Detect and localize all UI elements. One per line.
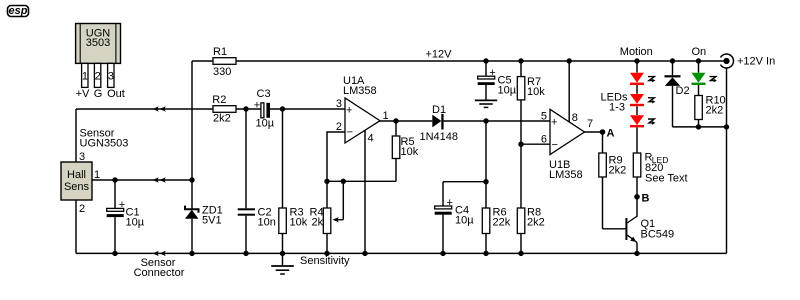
node R6 bottom [483,251,488,256]
diode D2 [665,61,690,127]
node D1 out [483,118,488,123]
node Q1 emitter ground [634,251,639,256]
svg-text:See Text: See Text [645,172,688,184]
svg-text:10µ: 10µ [498,85,517,97]
svg-text:2k2: 2k2 [609,165,627,177]
node ZD1 bottom [189,251,194,256]
svg-text:3: 3 [108,71,114,83]
package pin 2 [94,63,100,87]
node C4R6 [483,179,488,184]
wire to C4 [443,181,486,183]
svg-text:10µ: 10µ [455,215,474,227]
resistor R3 [279,109,308,253]
svg-text:3: 3 [79,151,85,163]
svg-text:1: 1 [383,110,389,122]
node R10 bottom [696,124,701,129]
wire D1 to U1B [444,120,550,122]
svg-text:2: 2 [336,121,342,133]
resistor R5 [392,121,418,181]
potentiometer R4 [310,181,344,253]
svg-text:BC549: BC549 [641,229,675,241]
wire U1B output [584,131,603,133]
svg-text:On: On [691,46,706,58]
package pin labels [76,88,125,100]
svg-text:−: − [347,127,353,139]
op-amp U1A [343,75,380,143]
svg-text:10µ: 10µ [126,217,145,229]
wire pin2 feedback [327,132,345,208]
svg-text:1: 1 [94,169,100,181]
svg-text:10µ: 10µ [256,118,275,130]
svg-text:1: 1 [82,71,88,83]
node feedback left [324,179,329,184]
capacitor C5 [478,61,517,100]
svg-text:C3: C3 [257,88,271,100]
svg-text:A: A [607,128,615,140]
wire sensor out horizontal [76,108,213,110]
package pin 1 [82,63,88,87]
UGN3503 package [76,24,121,64]
node ZD1 top [189,177,194,182]
svg-text:2: 2 [95,71,101,83]
ground symbol below R3 [271,253,294,274]
svg-text:G: G [94,88,103,100]
svg-text:3503: 3503 [86,37,110,49]
svg-text:B: B [642,192,650,204]
wire left vertical +V [191,61,193,209]
capacitor C3 [254,88,275,130]
resistor R2 [212,94,236,124]
svg-text:6: 6 [541,134,547,146]
capacitor C2 [238,109,276,253]
svg-text:2k2: 2k2 [706,105,724,117]
svg-text:5: 5 [541,111,547,123]
node R7R8 pin6 [518,142,523,147]
LED 3 red [630,115,655,127]
wire right vertical [726,68,728,253]
node green LED rail [696,58,701,63]
node wiper [341,179,346,184]
wire feedback horizontal [327,180,396,182]
svg-text:+: + [551,117,557,129]
capacitor C4 [435,182,475,254]
resistor R7 [517,61,545,144]
svg-text:UGN3503: UGN3503 [80,138,129,150]
connector arrows on +V wire [153,177,166,182]
resistor R1 [192,46,236,78]
LED 2 red [630,94,655,106]
LED green On [692,61,717,85]
wire hall pin2 down [75,200,77,253]
ESP logo [8,5,29,17]
node right vertical D2 wire [724,124,729,129]
svg-text:Hall: Hall [67,169,86,181]
svg-text:Connector: Connector [134,267,185,279]
svg-text:+: + [346,105,352,117]
node pin4 ground [362,251,367,256]
resistor RLED [633,152,687,197]
node R8 bottom [518,251,523,256]
node C3-R3 junction [280,106,285,111]
svg-text:4: 4 [368,133,374,145]
svg-text:10n: 10n [258,217,276,229]
svg-text:R1: R1 [213,46,227,58]
svg-text:1-3: 1-3 [609,102,625,114]
wire sensor +V horizontal [92,179,192,181]
capacitor C1 [107,180,145,253]
node A [600,129,606,135]
zener ZD1 [185,205,223,254]
resistor R10 [695,85,726,127]
svg-text:+: + [254,99,260,111]
wire opamp output [379,120,432,122]
wire pin6 [521,143,550,145]
node R7 rail [518,58,523,63]
terminal +12V In [721,54,776,68]
svg-text:22k: 22k [493,217,511,229]
svg-text:1N4148: 1N4148 [420,131,459,143]
label Sensor UGN3503 [80,128,129,150]
node R3 bottom [280,251,285,256]
svg-text:5V1: 5V1 [202,215,222,227]
node C2 bottom [243,251,248,256]
wire node down [485,121,487,182]
label Sensor Connector [134,257,185,279]
svg-text:−: − [552,139,558,151]
node B [634,194,640,200]
LED 1 red [630,73,655,85]
svg-text:LM358: LM358 [549,169,583,181]
wire hall pin3 up [75,109,77,162]
wire R2 to C3 [236,108,261,110]
svg-text:D1: D1 [432,104,446,116]
node pin8 rail [567,58,572,63]
package pin 3 [108,63,114,87]
connector arrows on ground rail [153,251,166,256]
hall sensor box [61,162,92,200]
svg-text:esp: esp [9,5,28,17]
svg-text:2k2: 2k2 [213,112,231,124]
node LED rail [634,58,639,63]
svg-text:+V: +V [76,88,90,100]
svg-text:+12V In: +12V In [737,56,775,68]
svg-text:3: 3 [336,98,342,110]
node output R5 [393,118,398,123]
svg-text:+12V: +12V [426,49,453,61]
node C1 top [112,177,117,182]
label LEDs 1-3 [601,92,628,114]
svg-text:2k: 2k [312,217,324,229]
svg-text:Motion: Motion [620,46,653,58]
svg-text:D2: D2 [676,85,690,97]
svg-text:8: 8 [572,112,578,124]
svg-text:2: 2 [79,203,85,215]
node D2 rail [670,58,675,63]
resistor R8 [517,144,544,253]
wire pin4 ground [364,131,366,254]
svg-text:330: 330 [213,66,231,78]
svg-text:10k: 10k [290,217,308,229]
node R2-C3 junction [243,106,248,111]
connector arrows on out wire [153,106,166,111]
wire base [603,228,626,230]
+12V rail [236,60,727,62]
resistor R6 [482,182,510,254]
resistor R9 [599,132,626,229]
svg-text:Sens: Sens [64,181,90,193]
wire pin8 [568,61,570,122]
diode D1 [420,104,459,143]
svg-text:10k: 10k [527,86,545,98]
node C1 bottom [112,251,117,256]
node R4 bottom [324,251,329,256]
wire D2 bottom [673,126,727,128]
node C4 bottom [440,251,445,256]
ground symbol below C5 [475,100,497,107]
svg-text:2k2: 2k2 [527,217,545,229]
svg-text:Out: Out [107,88,125,100]
transistor Q1 [625,197,674,254]
svg-text:LM358: LM358 [343,85,377,97]
svg-text:10k: 10k [401,146,419,158]
wire C3 to opamp [270,108,345,110]
node C5 rail [483,58,488,63]
svg-text:7: 7 [587,118,593,130]
ground rail [76,252,727,254]
LED chain wires [636,61,638,153]
svg-text:Sensitivity: Sensitivity [300,255,350,267]
svg-text:R2: R2 [212,94,226,106]
op-amp U1B [549,109,585,181]
